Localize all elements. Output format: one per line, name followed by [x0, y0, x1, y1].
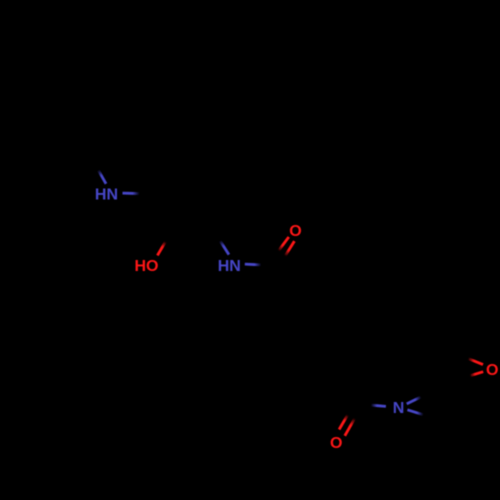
svg-text:O: O [289, 223, 301, 240]
svg-text:O: O [486, 362, 498, 379]
bond N1-C (right half, blue) [123, 192, 140, 195]
double bond C=O4 line a (red half) [339, 415, 348, 430]
bond N3-C ring (up-right half, blue) [407, 397, 421, 404]
bond N3-C(=O) (left half, blue) [371, 405, 386, 406]
bond O1-C (up-right half, red) [157, 242, 165, 256]
bond N2-C (up-left half, blue) [220, 241, 229, 255]
double bond C=O2 line a (red half) [279, 237, 289, 251]
bond O3-C ring (down-left half, red) [470, 372, 483, 376]
svg-text:HN: HN [218, 258, 241, 275]
bond N1-C (up-left half, blue) [98, 170, 106, 184]
svg-text:HN: HN [95, 187, 118, 204]
svg-text:HO: HO [135, 258, 159, 275]
double bond C=O4 line b (red half) [345, 418, 355, 436]
double bond C=O2 line b (red half) [285, 241, 294, 256]
bond N3-C ring (down-right half, blue) [407, 410, 423, 415]
bond O3-C ring (up-left half, red) [468, 359, 483, 365]
svg-text:O: O [330, 435, 342, 452]
svg-text:N: N [393, 400, 405, 417]
bond N2-C(=O) (right half, blue) [245, 263, 261, 267]
